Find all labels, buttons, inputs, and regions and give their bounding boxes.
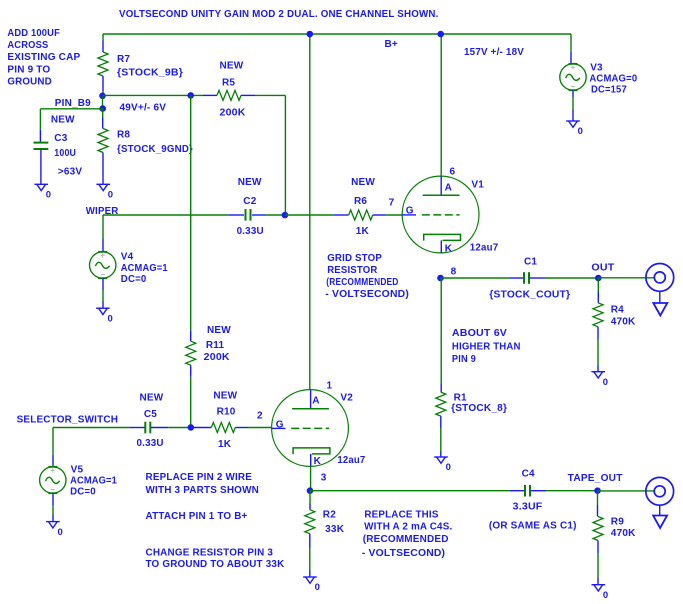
svg-text:PIN 9: PIN 9 [452, 354, 476, 365]
svg-text:- VOLTSECOND): - VOLTSECOND) [325, 289, 409, 300]
svg-text:12au7: 12au7 [337, 455, 365, 466]
svg-text:33K: 33K [325, 524, 345, 535]
ground V3 [566, 121, 580, 127]
wire R9 bottom pin [597, 541, 599, 554]
wire PIN_B9 horizontal [40, 108, 102, 110]
wire R10 to V2 grid [248, 427, 272, 429]
svg-text:8: 8 [451, 266, 457, 277]
wire R5 right pin [241, 94, 255, 96]
wire R5 corner down to C2 node [284, 95, 286, 215]
svg-text:B+: B+ [385, 39, 398, 50]
wire R9 to ground [597, 553, 599, 578]
ground R1 [434, 457, 448, 463]
svg-text:G: G [406, 205, 414, 216]
wire V5 top pin [52, 455, 54, 467]
svg-text:1K: 1K [218, 439, 232, 450]
wire V2 cathode down [310, 466, 312, 491]
resistor R5 [217, 90, 241, 100]
junction PIN_B9 [99, 105, 106, 112]
wire B+ to V1 pin 6 [440, 34, 442, 176]
svg-text:V5: V5 [71, 464, 84, 475]
svg-text:NEW: NEW [213, 391, 237, 402]
svg-text:V2: V2 [340, 393, 353, 404]
wire R11 bottom pin [190, 365, 192, 377]
wire C2 right pin [252, 214, 266, 216]
wire node to PIN_B9 node [102, 96, 104, 109]
capacitor C1 [524, 272, 529, 284]
wire R6 to V1 grid [386, 214, 402, 216]
svg-text:ABOUT 6V: ABOUT 6V [452, 328, 507, 339]
svg-text:0: 0 [108, 190, 113, 201]
svg-text:200K: 200K [204, 352, 231, 363]
resistor R4 [593, 303, 603, 327]
capacitor C5 [145, 422, 150, 434]
wire R4 to ground [597, 339, 599, 366]
svg-text:ACMAG=0: ACMAG=0 [589, 74, 637, 85]
wire OUT to R4 [597, 278, 599, 291]
ground R9 [592, 585, 606, 591]
svg-text:RESISTOR: RESISTOR [327, 265, 378, 276]
svg-text:NEW: NEW [220, 61, 244, 72]
svg-text:SELECTOR_SWITCH: SELECTOR_SWITCH [17, 414, 119, 425]
svg-text:{STOCK_8}: {STOCK_8} [451, 403, 507, 414]
svg-text:ACMAG=1: ACMAG=1 [121, 263, 168, 274]
voltage source V4 [90, 252, 116, 278]
wire V4 top pin [102, 239, 104, 253]
wire V3 bottom pin [572, 90, 574, 97]
wire C4 to TAPE_OUT node [546, 490, 598, 492]
ground TAPE_OUT jack [653, 516, 667, 529]
wire V4 bottom pin [102, 278, 104, 290]
wire B+ rail [103, 33, 571, 35]
wire V4 ground pin [102, 301, 104, 308]
wire R10 left pin [191, 427, 212, 429]
svg-text:R8: R8 [117, 130, 130, 141]
ground V4 [96, 308, 110, 314]
ground R8 [96, 184, 110, 190]
svg-text:TAPE_OUT: TAPE_OUT [568, 473, 623, 484]
svg-text:R7: R7 [117, 54, 130, 65]
wire R2 drop [309, 491, 311, 503]
svg-text:0: 0 [108, 313, 113, 324]
wire C4 left pin [510, 490, 524, 492]
wire R1 ground pin [440, 451, 442, 457]
svg-text:G: G [276, 419, 284, 430]
wire R8 top pin [102, 118, 104, 129]
wire R2 bottom pin [309, 534, 311, 548]
wire V5 bottom pin [52, 493, 54, 505]
wire C1 right pin [530, 277, 546, 279]
svg-text:ACMAG=1: ACMAG=1 [70, 476, 117, 487]
svg-text:12au7: 12au7 [470, 242, 499, 253]
resistor R7 [98, 52, 108, 76]
voltage source V5 [40, 467, 66, 493]
svg-text:100U: 100U [54, 148, 76, 159]
ground OUT jack [653, 303, 667, 316]
junction B+ / V2 pin 1 [307, 31, 314, 38]
wire R11 to C5 node [190, 377, 192, 428]
capacitor C4 [525, 485, 530, 497]
svg-text:ATTACH PIN 1 TO B+: ATTACH PIN 1 TO B+ [146, 511, 248, 522]
wire OUT jack ground pin [659, 291, 661, 303]
wire C2 to junction [266, 214, 285, 216]
wire R11 vertical from R5 node [190, 95, 192, 330]
svg-text:C5: C5 [144, 409, 157, 420]
svg-text:(RECOMMENDED: (RECOMMENDED [363, 533, 449, 545]
svg-text:157V +/- 18V: 157V +/- 18V [464, 47, 524, 58]
svg-text:ACROSS: ACROSS [7, 40, 48, 51]
wire C3 bottom pin [40, 150, 42, 185]
junction OUT node [595, 275, 602, 282]
wire V5 drop [52, 428, 54, 455]
wire R10 right pin [235, 427, 248, 429]
junction R7 / R5 wire [99, 93, 106, 100]
svg-text:2: 2 [257, 410, 263, 421]
junction B+ / V1 pin 6 [437, 31, 444, 38]
svg-text:>63V: >63V [58, 166, 83, 177]
wire C1 to OUT node [545, 277, 598, 279]
resistor R1 [436, 392, 446, 416]
wire TAPE_OUT to jack [598, 490, 655, 492]
junction R5 / R11 [187, 92, 194, 99]
wire R2 to ground [309, 548, 311, 571]
svg-text:(OR SAME AS C1): (OR SAME AS C1) [489, 521, 577, 532]
svg-text:PIN 9 TO: PIN 9 TO [7, 64, 50, 75]
svg-text:PIN_B9: PIN_B9 [55, 98, 91, 109]
wire C5 to junction [168, 427, 191, 429]
svg-text:GRID STOP: GRID STOP [327, 253, 382, 264]
wire PIN_B9 to R8 [102, 109, 104, 118]
wire V1 cathode to R1 [440, 278, 442, 383]
wire R2 top pin [309, 503, 311, 510]
svg-text:WITH A 2 mA C4S.: WITH A 2 mA C4S. [364, 520, 452, 532]
ground R4 [591, 372, 605, 378]
svg-text:R1: R1 [454, 392, 467, 403]
svg-text:DC=0: DC=0 [70, 487, 96, 498]
wire R7 bottom pin [102, 76, 104, 91]
triode U-V1 12au7 [402, 176, 479, 253]
wire R1 to ground [440, 428, 442, 451]
wire TAPE jack ground pin [659, 505, 661, 515]
svg-text:REPLACE PIN 2 WIRE: REPLACE PIN 2 WIRE [146, 472, 253, 483]
voltage source V3 [560, 64, 586, 90]
svg-text:470K: 470K [611, 317, 636, 328]
connector OUT jack [646, 264, 674, 292]
wire R7 top pin [102, 41, 104, 53]
junction C2 / R5 [282, 212, 289, 219]
svg-text:C4: C4 [522, 469, 535, 480]
svg-text:470K: 470K [611, 528, 636, 539]
wire C4 right pin [531, 490, 547, 492]
svg-text:GROUND: GROUND [7, 77, 52, 88]
wire R2 ground pin [309, 571, 311, 578]
svg-text:REPLACE THIS: REPLACE THIS [364, 509, 438, 521]
ground V5 [46, 522, 60, 528]
wire C1 left pin [510, 277, 524, 279]
svg-text:NEW: NEW [351, 177, 375, 188]
ground R2 [303, 577, 317, 583]
svg-text:1K: 1K [356, 226, 370, 237]
svg-text:OUT: OUT [591, 263, 614, 274]
svg-text:NEW: NEW [238, 177, 262, 188]
svg-text:A: A [445, 183, 452, 194]
resistor R6 [349, 210, 373, 220]
svg-text:R4: R4 [611, 305, 624, 316]
wire R6 left pin [334, 214, 349, 216]
svg-text:C2: C2 [243, 196, 256, 207]
svg-text:0: 0 [603, 377, 608, 388]
wire V3 top pin [570, 52, 572, 64]
svg-text:HIGHER THAN: HIGHER THAN [452, 342, 521, 353]
svg-text:DC=157: DC=157 [591, 85, 627, 96]
svg-text:0: 0 [58, 527, 63, 538]
wire R11 top pin [190, 330, 192, 341]
junction C5 / R10 / R11 [188, 424, 195, 431]
svg-text:K: K [445, 244, 453, 255]
resistor R11 [186, 341, 196, 365]
wire R4 ground pin [597, 366, 599, 372]
svg-text:0: 0 [446, 462, 451, 473]
wire R9 ground pin [597, 578, 599, 585]
wire V2 cathode to C4 [310, 490, 510, 492]
wire PIN_B9 down to C3 [39, 109, 41, 130]
wire R7 node to R5 [103, 94, 204, 96]
wire R7 top stub [102, 34, 104, 41]
svg-text:C3: C3 [54, 133, 67, 144]
svg-text:V4: V4 [121, 252, 134, 263]
wire R4 bottom pin [597, 327, 599, 339]
svg-text:K: K [314, 456, 322, 467]
svg-text:NEW: NEW [51, 114, 75, 125]
svg-text:WITH 3 PARTS SHOWN: WITH 3 PARTS SHOWN [146, 485, 260, 496]
svg-text:DC=0: DC=0 [121, 274, 147, 285]
svg-text:R6: R6 [354, 196, 367, 207]
svg-text:A: A [312, 396, 319, 407]
resistor R10 [211, 423, 235, 433]
wire B+ to V3 [570, 34, 572, 52]
svg-text:{STOCK_COUT}: {STOCK_COUT} [489, 290, 570, 301]
svg-text:{STOCK_9GND}: {STOCK_9GND} [117, 144, 193, 155]
svg-text:6: 6 [450, 167, 456, 178]
capacitor C2 [246, 209, 251, 221]
resistor R8 [98, 129, 108, 153]
wire V3 ground pin [572, 109, 574, 121]
svg-text:ADD 100UF: ADD 100UF [7, 28, 60, 39]
wire C3 top pin [39, 130, 41, 142]
svg-text:R5: R5 [222, 77, 235, 88]
wire R5 left pin [203, 94, 217, 96]
resistor R2 [305, 510, 315, 534]
wire C5 right pin [151, 427, 168, 429]
wire R7 to node [102, 91, 104, 96]
svg-text:3: 3 [321, 473, 327, 484]
junction TAPE_OUT node [594, 487, 601, 494]
svg-text:- VOLTSECOND): - VOLTSECOND) [362, 547, 445, 559]
wire TAPE_OUT to R9 [597, 491, 599, 505]
svg-text:C1: C1 [524, 257, 537, 268]
svg-text:0: 0 [46, 190, 51, 201]
svg-text:R2: R2 [323, 510, 336, 521]
wire V4 to ground [102, 290, 104, 301]
wire C5 left pin [130, 427, 145, 429]
wire C2 left pin [228, 214, 244, 216]
wire OUT to jack [598, 277, 654, 279]
svg-text:1: 1 [327, 381, 333, 392]
svg-text:{STOCK_9B}: {STOCK_9B} [117, 68, 183, 79]
wire V5 ground pin [52, 515, 54, 522]
svg-text:(RECOMMENDED: (RECOMMENDED [326, 277, 398, 288]
wire R4 top pin [597, 291, 599, 303]
wire R9 top pin [597, 505, 599, 517]
svg-text:200K: 200K [220, 108, 247, 119]
svg-text:CHANGE RESISTOR PIN 3: CHANGE RESISTOR PIN 3 [146, 547, 274, 558]
junction V1 cathode node [437, 275, 444, 282]
triode U-V2 12au7 [272, 390, 349, 467]
ground C3 [34, 184, 48, 190]
svg-text:0: 0 [315, 582, 320, 593]
wire R1 top pin [440, 383, 442, 392]
connector TAPE_OUT jack [646, 477, 674, 505]
wire V4 drop [102, 215, 104, 239]
wire R6 right pin [373, 214, 387, 216]
wire R1 bottom pin [440, 416, 442, 428]
svg-text:VOLTSECOND UNITY GAIN MOD 2 DU: VOLTSECOND UNITY GAIN MOD 2 DUAL. ONE CH… [119, 9, 439, 20]
wire B+ to V2 pin 1 [309, 34, 311, 390]
svg-text:TO GROUND TO ABOUT 33K: TO GROUND TO ABOUT 33K [146, 559, 285, 570]
svg-text:R11: R11 [206, 340, 225, 351]
svg-text:0.33U: 0.33U [137, 438, 164, 449]
wire V5 to ground [52, 505, 54, 515]
capacitor C3 [34, 143, 49, 149]
wire V3 to ground [572, 97, 574, 109]
wire R5 to corner [255, 94, 285, 96]
svg-text:NEW: NEW [140, 392, 164, 403]
svg-text:7: 7 [389, 197, 395, 208]
svg-text:V3: V3 [590, 62, 603, 73]
svg-text:49V+/- 6V: 49V+/- 6V [120, 103, 167, 114]
svg-text:R9: R9 [611, 516, 624, 527]
svg-text:0: 0 [578, 126, 583, 137]
resistor R9 [593, 517, 603, 541]
wire WIPER horizontal [103, 214, 228, 216]
wire V1 cathode to C1 [441, 277, 511, 279]
wire R8 bottom pin [102, 153, 104, 185]
svg-text:3.3UF: 3.3UF [513, 501, 543, 512]
wire junction to R6 [285, 214, 334, 216]
junction V2 cathode node [307, 487, 314, 494]
wire selector horizontal [53, 427, 130, 429]
svg-text:R10: R10 [217, 407, 236, 418]
svg-text:EXISTING CAP: EXISTING CAP [7, 52, 80, 63]
svg-text:0: 0 [603, 590, 608, 601]
svg-text:V1: V1 [471, 180, 484, 191]
svg-text:0.33U: 0.33U [237, 226, 264, 237]
svg-text:NEW: NEW [207, 325, 231, 336]
